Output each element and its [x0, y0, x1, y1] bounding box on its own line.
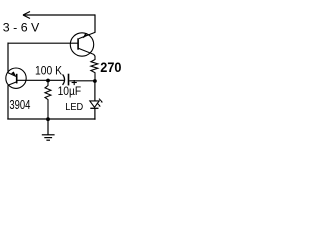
node cap-right junction	[93, 79, 97, 83]
wire bottom rail	[7, 118, 95, 120]
left rail top segment	[7, 43, 9, 73]
wire cap to node	[69, 80, 95, 82]
wire Q2 base from left rail	[8, 42, 78, 44]
svg-text:270: 270	[100, 60, 121, 75]
ground	[42, 119, 55, 140]
supply arrow to 3-6V	[23, 12, 95, 19]
LED D1	[90, 99, 103, 109]
wire LED cathode	[94, 108, 96, 119]
wire LED anode	[94, 81, 96, 101]
resistor 270	[91, 56, 98, 81]
left rail bottom segment	[7, 85, 9, 119]
resistor 100K	[45, 82, 51, 119]
svg-text:10µF: 10µF	[58, 86, 82, 98]
cap plus sign	[72, 80, 77, 85]
svg-text:100 K: 100 K	[35, 64, 62, 78]
wire Q1 base to cap	[17, 79, 64, 81]
capacitor C1 10uF	[63, 74, 69, 86]
node base junction	[46, 79, 50, 83]
transistor Q1 (3904)	[6, 68, 26, 88]
svg-text:LED: LED	[65, 102, 83, 113]
transistor Q2 (PNP)	[70, 32, 95, 56]
wire top-right vertical	[94, 14, 96, 32]
node ground junction	[46, 117, 50, 121]
svg-text:3 - 6 V: 3 - 6 V	[3, 21, 40, 35]
svg-text:3904: 3904	[9, 97, 30, 112]
